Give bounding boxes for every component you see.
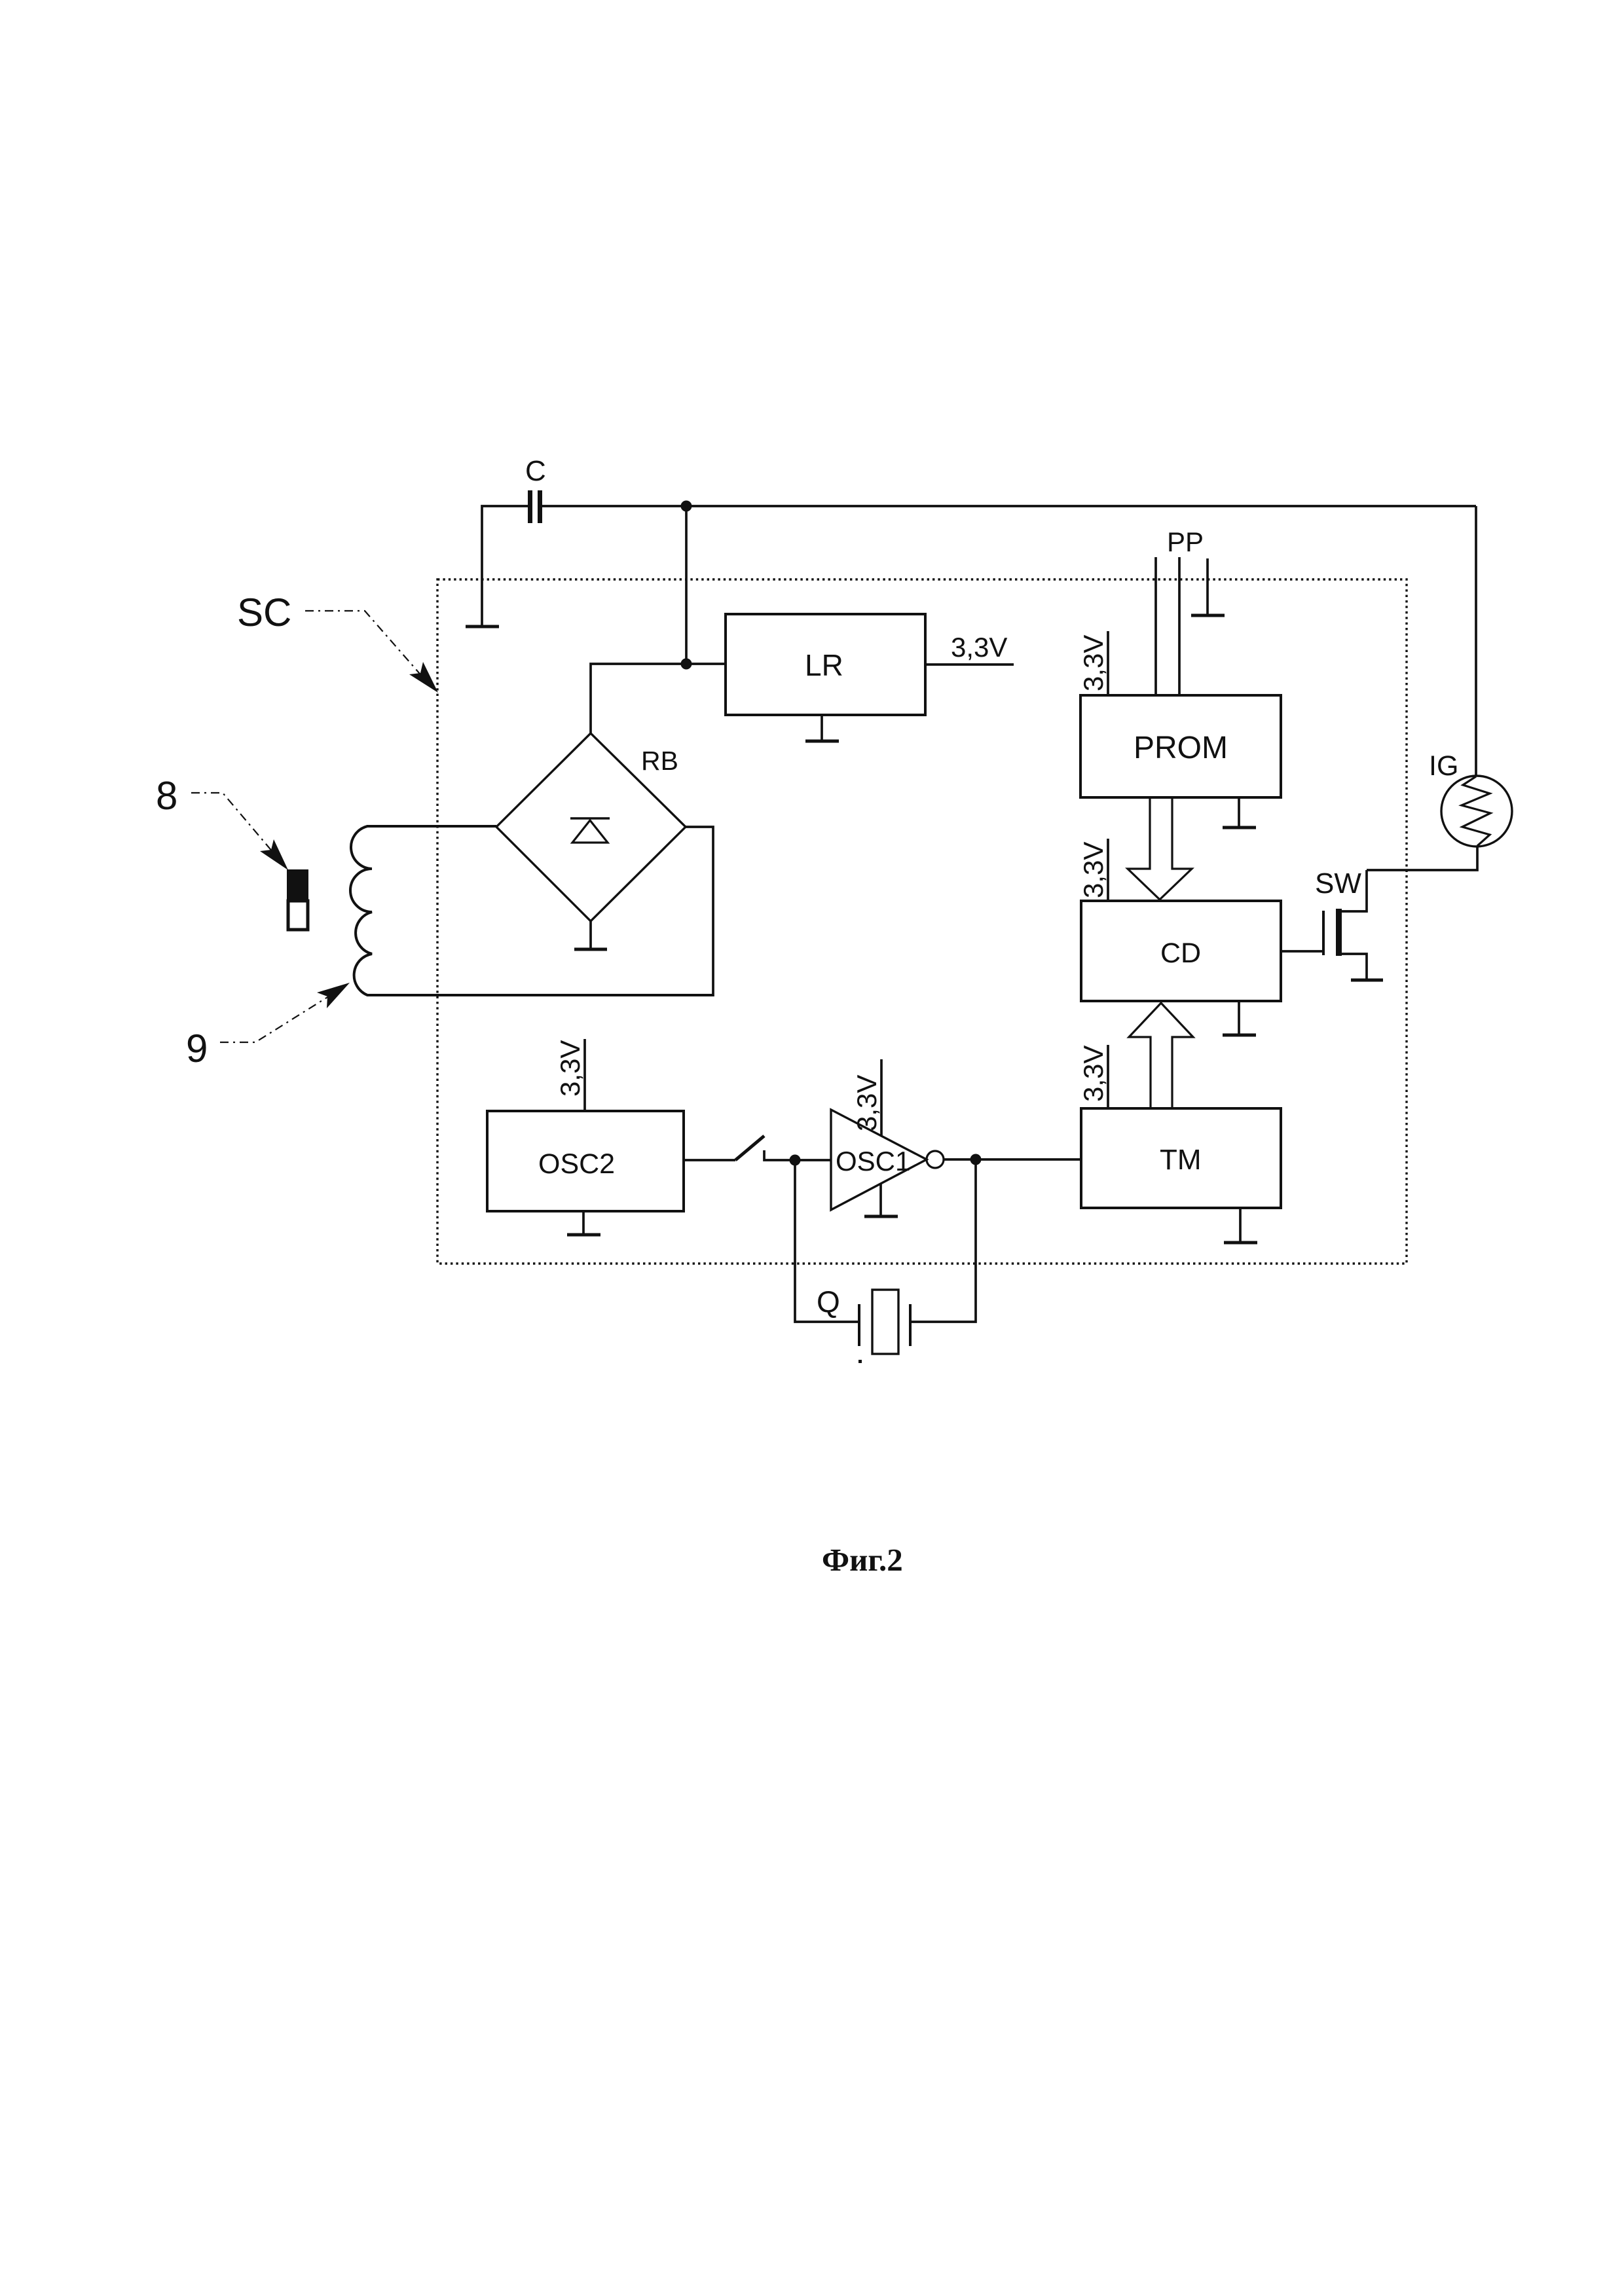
switch terminal	[764, 1150, 831, 1160]
label 9	[186, 1027, 208, 1070]
svg-text:Q: Q	[817, 1285, 840, 1319]
lamp IG filament	[1462, 776, 1490, 846]
svg-text:LR: LR	[805, 648, 843, 682]
svg-text:Фиг.2: Фиг.2	[822, 1542, 903, 1578]
wire crystal right	[910, 1159, 976, 1322]
coil 9	[350, 826, 713, 995]
svg-text:TM: TM	[1160, 1144, 1202, 1176]
wire rail to IG	[1475, 506, 1477, 776]
label Q	[817, 1285, 840, 1319]
ground CD	[1238, 1001, 1240, 1034]
label IG	[1429, 750, 1458, 782]
svg-text:OSC2: OSC2	[538, 1148, 615, 1180]
wire OSC2 to switch	[684, 1159, 735, 1161]
leader 8	[191, 793, 273, 852]
ground PROM	[1238, 797, 1240, 826]
svg-text:3,3V: 3,3V	[851, 1075, 882, 1131]
power stub 3,3V OSC2	[583, 1039, 586, 1111]
block LR	[726, 614, 925, 715]
power stub 3,3V PROM	[1107, 631, 1109, 695]
svg-text:PROM: PROM	[1134, 731, 1228, 765]
PP line 2	[1178, 557, 1181, 695]
transistor SW gate	[1322, 911, 1325, 955]
svg-text:3,3V: 3,3V	[1078, 842, 1109, 898]
transistor SW drain lead	[1342, 870, 1367, 911]
speck	[858, 1360, 862, 1363]
svg-text:SC: SC	[237, 591, 291, 634]
leader 9	[220, 995, 331, 1042]
bus arrow TM to CD	[1129, 1003, 1193, 1108]
svg-text:OSC1: OSC1	[836, 1146, 910, 1176]
wire top rail	[542, 505, 1476, 507]
label PP	[1167, 526, 1204, 557]
wire crystal left	[795, 1160, 859, 1322]
wire CD to gate	[1281, 950, 1323, 953]
diode inside RB	[570, 817, 610, 819]
power stub 3,3V TM	[1107, 1045, 1109, 1108]
crystal Q plates	[858, 1304, 860, 1346]
leader SC	[305, 611, 424, 679]
ground PP	[1191, 614, 1225, 617]
ground LR	[821, 715, 823, 740]
svg-text:PP: PP	[1167, 526, 1204, 557]
power stub 3,3V CD	[1107, 839, 1109, 901]
label SC	[237, 591, 291, 634]
svg-text:SW: SW	[1315, 867, 1361, 900]
bubble OSC1	[927, 1151, 944, 1168]
junction J1	[681, 501, 692, 512]
block PROM	[1080, 695, 1281, 797]
wire IG to SW	[1367, 847, 1477, 870]
caption	[822, 1542, 903, 1578]
block TM	[1081, 1108, 1281, 1208]
label 8	[156, 774, 177, 818]
inverter OSC1	[831, 1110, 927, 1210]
ground OSC1	[879, 1184, 882, 1215]
svg-text:3,3V: 3,3V	[951, 632, 1007, 663]
PP line 3	[1206, 558, 1209, 614]
junction JB	[970, 1154, 982, 1165]
svg-text:CD: CD	[1160, 938, 1201, 969]
rectifier bridge RB	[496, 733, 686, 921]
ground G1	[466, 625, 499, 629]
ground RB	[589, 921, 592, 948]
wire capacitor left	[482, 506, 528, 625]
ground SW	[1351, 979, 1383, 982]
capacitor C plates	[528, 490, 532, 523]
junction JA	[790, 1155, 801, 1166]
block CD	[1081, 901, 1281, 1001]
label SW	[1315, 867, 1361, 900]
crystal Q body	[872, 1290, 898, 1354]
PP line 1	[1154, 557, 1157, 695]
svg-text:8: 8	[156, 774, 177, 818]
svg-text:IG: IG	[1429, 750, 1458, 782]
wire OSC1 to TM	[944, 1158, 1081, 1161]
svg-text:3,3V: 3,3V	[1078, 635, 1109, 691]
power stub 3,3V OSC1	[880, 1059, 883, 1135]
svg-text:3,3V: 3,3V	[1078, 1046, 1109, 1102]
wire LR output	[925, 663, 1014, 666]
svg-text:9: 9	[186, 1027, 208, 1070]
svg-text:3,3V: 3,3V	[555, 1040, 585, 1097]
label 3,3V (LR output)	[951, 632, 1007, 663]
block OSC2	[487, 1111, 684, 1211]
ground OSC2	[582, 1211, 585, 1233]
wire RB right to bottom	[686, 827, 713, 996]
capacitor C label	[525, 455, 546, 487]
junction J2	[681, 659, 692, 670]
svg-text:C: C	[525, 455, 546, 487]
switch blade	[735, 1136, 764, 1160]
transistor SW source lead	[1342, 954, 1367, 979]
svg-text:RB: RB	[641, 746, 678, 776]
transistor SW channel	[1336, 909, 1342, 956]
bus arrow PROM to CD	[1128, 797, 1192, 900]
magnet 8	[287, 869, 308, 901]
wire J1 to J2	[685, 506, 688, 664]
SC dotted enclosure	[437, 579, 1407, 1264]
wire RB to LR	[591, 664, 726, 733]
lamp IG	[1441, 776, 1512, 847]
ground TM	[1239, 1208, 1242, 1241]
